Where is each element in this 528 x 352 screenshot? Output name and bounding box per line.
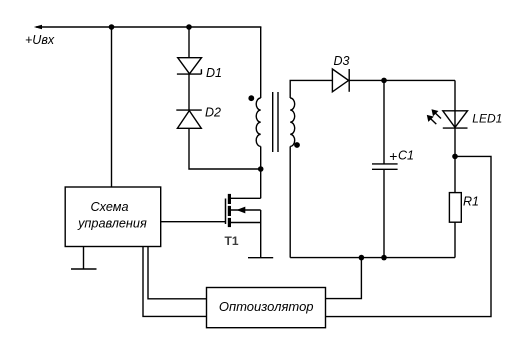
control box (Схема управления) — [65, 187, 161, 247]
wire top rail — [36, 26, 261, 28]
svg-text:Оптоизолятор: Оптоизолятор — [219, 299, 314, 314]
node top rail to control box — [109, 24, 115, 30]
diode D3 — [332, 69, 348, 92]
wire LED to R1 — [454, 156, 456, 192]
node primary phase dot — [248, 95, 254, 101]
transistor T1 — [226, 169, 261, 258]
node top rail to D1 branch — [186, 24, 192, 30]
capacitor C1 — [372, 163, 398, 165]
svg-text:LED1: LED1 — [472, 112, 502, 126]
input arrow — [34, 25, 42, 29]
wire control to opto upper — [148, 247, 207, 299]
svg-text:+: + — [389, 148, 397, 164]
node C1 top junction — [381, 78, 387, 84]
wire D3 to LED corner — [349, 79, 455, 81]
resistor R1 — [449, 193, 461, 223]
svg-text:управления: управления — [77, 217, 147, 231]
svg-text:R1: R1 — [463, 194, 479, 208]
wire D2 to primary bottom — [189, 128, 261, 169]
wire C1 branch lower — [383, 169, 385, 257]
node rail to C1 — [381, 255, 387, 261]
node secondary phase dot — [294, 142, 300, 148]
wire secondary bottom leg — [289, 146, 291, 257]
svg-text:C1: C1 — [398, 149, 414, 163]
wire R1 bottom — [454, 222, 456, 257]
transformer secondary winding — [290, 98, 295, 146]
wire opto feedback upper — [326, 258, 362, 299]
transformer core — [272, 92, 274, 152]
diode D2 — [176, 109, 202, 111]
node primary bottom junction — [258, 166, 264, 172]
wire D1 to D2 — [188, 74, 190, 110]
wire primary top — [260, 27, 262, 98]
wire secondary top to D3 — [290, 80, 332, 98]
ground (T1 source) — [248, 257, 273, 259]
wire bottom rail — [290, 257, 455, 259]
svg-text:Схема: Схема — [90, 200, 128, 214]
wire control box input — [111, 27, 113, 187]
node rail to opto — [359, 255, 365, 261]
wire LED branch — [454, 80, 456, 156]
svg-text:D2: D2 — [205, 105, 221, 119]
wire primary bottom — [260, 146, 262, 169]
node LED bottom junction — [452, 154, 458, 160]
LED1 emission arrows — [427, 109, 441, 124]
svg-text:D3: D3 — [334, 54, 350, 68]
svg-text:D1: D1 — [206, 66, 222, 80]
svg-text:+Uвх: +Uвх — [25, 33, 55, 47]
wire C1 branch upper — [383, 80, 385, 163]
diode D1 (zener) — [178, 58, 202, 74]
optoisolator box — [207, 288, 326, 328]
wire D1 branch — [188, 27, 190, 58]
wire opto output lower — [326, 156, 492, 316]
svg-text:T1: T1 — [225, 234, 239, 248]
wire gate — [161, 221, 226, 223]
wire control to opto lower — [143, 247, 207, 317]
transformer primary winding — [256, 98, 261, 146]
LED LED1 — [443, 111, 468, 128]
ground (control box) — [83, 247, 85, 270]
